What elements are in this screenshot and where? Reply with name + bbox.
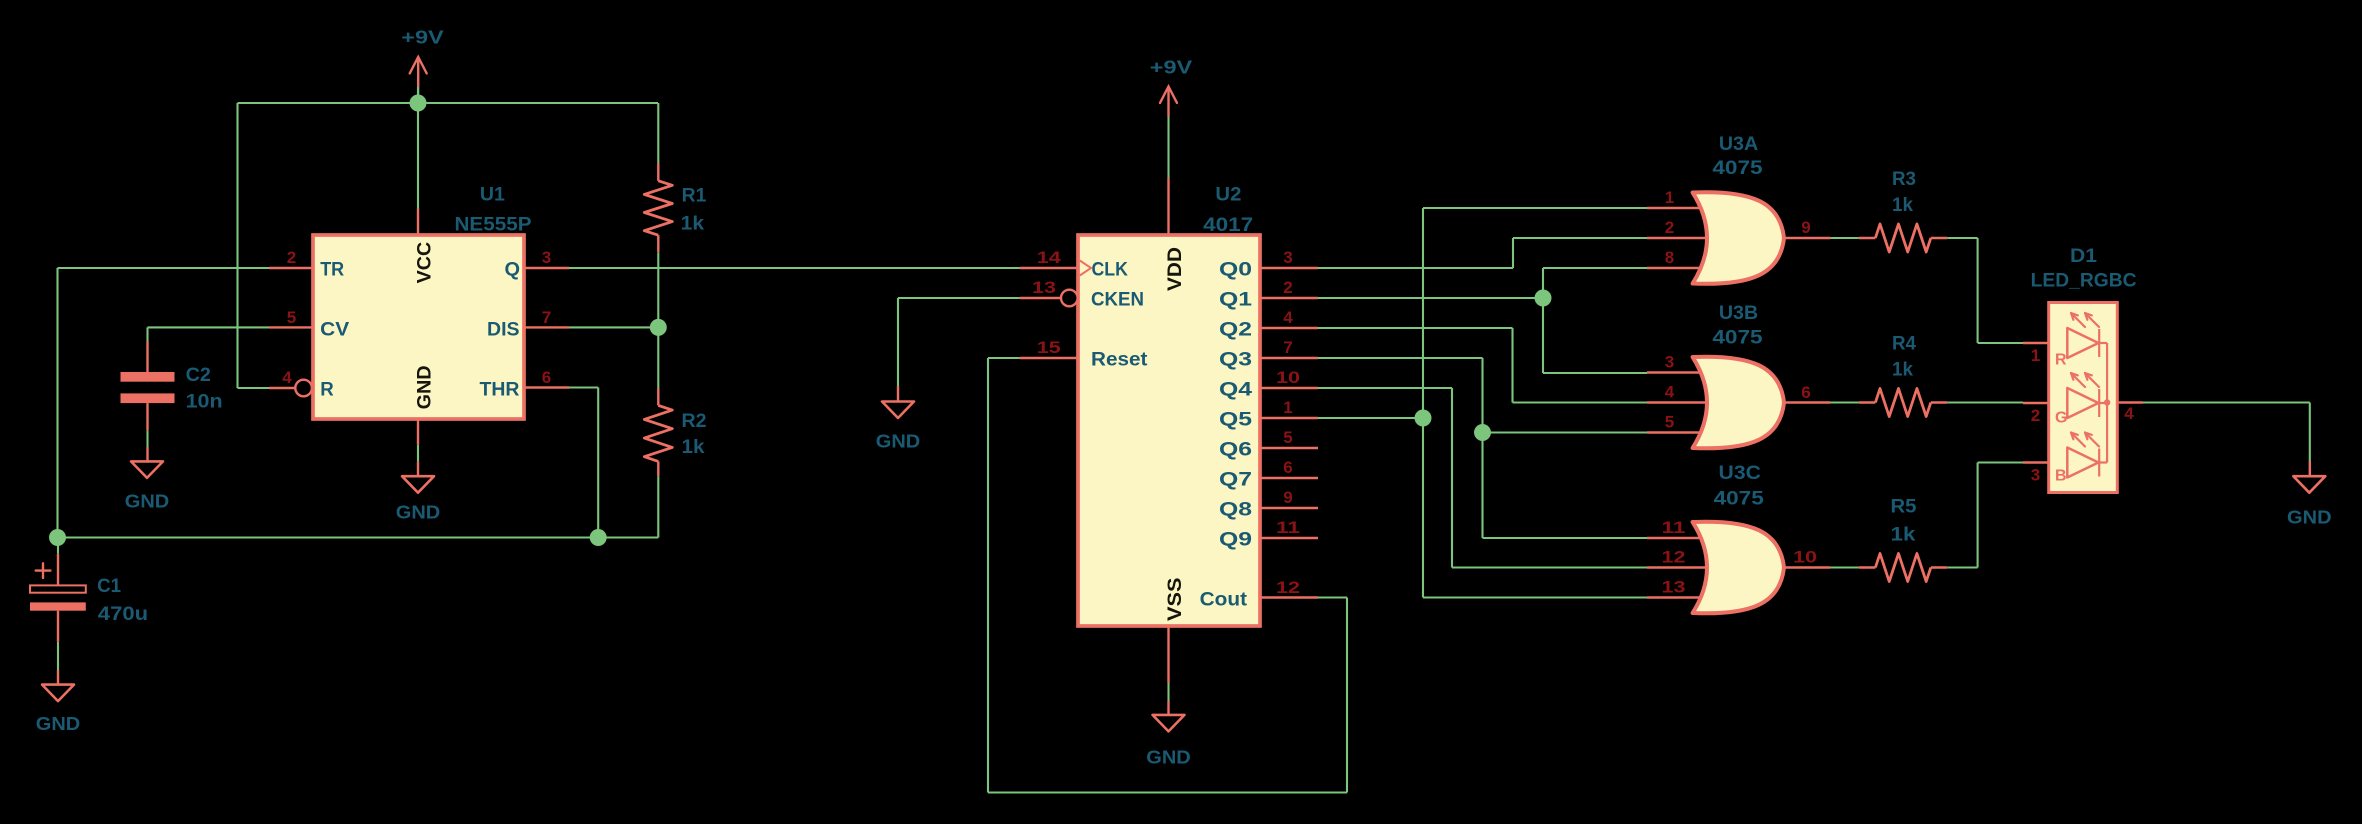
svg-text:4: 4 <box>1665 383 1675 402</box>
svg-text:2: 2 <box>1665 218 1674 237</box>
svg-text:Q4: Q4 <box>1219 380 1253 401</box>
svg-text:C2: C2 <box>186 365 211 386</box>
svg-text:Q8: Q8 <box>1219 500 1252 521</box>
svg-text:VCC: VCC <box>414 242 435 284</box>
svg-text:U2: U2 <box>1215 185 1241 206</box>
svg-text:GND: GND <box>2287 507 2332 528</box>
svg-text:7: 7 <box>542 308 551 327</box>
svg-text:VSS: VSS <box>1165 578 1186 622</box>
svg-text:R: R <box>320 380 334 401</box>
svg-text:3: 3 <box>1665 353 1674 372</box>
svg-text:R: R <box>2055 352 2067 369</box>
svg-text:3: 3 <box>542 248 551 267</box>
svg-text:NE555P: NE555P <box>455 215 532 236</box>
svg-text:1: 1 <box>2031 346 2040 365</box>
svg-text:9: 9 <box>1283 488 1292 507</box>
svg-text:Q3: Q3 <box>1219 350 1252 371</box>
svg-text:13: 13 <box>1662 578 1686 597</box>
svg-text:1k: 1k <box>682 437 705 458</box>
svg-text:6: 6 <box>1283 458 1292 477</box>
svg-text:CKEN: CKEN <box>1091 290 1144 311</box>
svg-text:Q: Q <box>505 260 521 281</box>
svg-text:1k: 1k <box>1892 195 1913 216</box>
svg-text:2: 2 <box>287 248 296 267</box>
svg-text:470u: 470u <box>98 604 148 625</box>
svg-text:6: 6 <box>542 368 551 387</box>
svg-text:15: 15 <box>1037 338 1061 357</box>
svg-text:G: G <box>2055 410 2067 427</box>
svg-text:R5: R5 <box>1891 497 1917 518</box>
svg-text:Q0: Q0 <box>1219 260 1252 281</box>
svg-text:+9V: +9V <box>1150 57 1193 78</box>
svg-text:GND: GND <box>36 713 81 734</box>
svg-text:1k: 1k <box>1892 360 1913 381</box>
svg-text:GND: GND <box>125 491 170 512</box>
svg-text:LED_RGBC: LED_RGBC <box>2031 271 2137 292</box>
svg-text:4017: 4017 <box>1203 215 1253 236</box>
svg-text:1: 1 <box>1665 188 1674 207</box>
svg-text:CV: CV <box>320 320 349 341</box>
svg-text:Cout: Cout <box>1200 590 1248 611</box>
svg-text:Q5: Q5 <box>1219 410 1253 431</box>
svg-text:B: B <box>2055 468 2067 485</box>
svg-text:4075: 4075 <box>1714 489 1765 510</box>
svg-text:1: 1 <box>1283 398 1292 417</box>
svg-text:5: 5 <box>1665 413 1674 432</box>
svg-text:5: 5 <box>287 308 296 327</box>
svg-text:U3A: U3A <box>1719 134 1759 155</box>
svg-text:12: 12 <box>1276 578 1300 597</box>
svg-text:4: 4 <box>1283 308 1293 327</box>
svg-text:10: 10 <box>1276 368 1300 387</box>
svg-text:10: 10 <box>1793 548 1817 567</box>
svg-text:Q2: Q2 <box>1219 320 1252 341</box>
svg-text:R2: R2 <box>682 411 707 432</box>
svg-text:Q9: Q9 <box>1219 530 1252 551</box>
svg-text:VDD: VDD <box>1165 247 1186 291</box>
svg-text:DIS: DIS <box>487 320 520 341</box>
svg-text:14: 14 <box>1037 248 1062 267</box>
svg-text:4075: 4075 <box>1712 158 1763 179</box>
svg-text:1k: 1k <box>1891 525 1916 546</box>
svg-text:Q6: Q6 <box>1219 440 1252 461</box>
svg-text:GND: GND <box>414 365 435 409</box>
svg-text:THR: THR <box>480 380 520 401</box>
svg-text:Q1: Q1 <box>1219 290 1253 311</box>
svg-text:8: 8 <box>1665 248 1674 267</box>
svg-text:U3B: U3B <box>1719 303 1758 324</box>
svg-text:U1: U1 <box>480 185 505 206</box>
svg-text:11: 11 <box>1276 518 1300 537</box>
svg-text:D1: D1 <box>2070 246 2097 267</box>
svg-text:GND: GND <box>396 502 441 523</box>
svg-text:GND: GND <box>876 431 921 452</box>
svg-text:+9V: +9V <box>401 27 444 48</box>
svg-text:C1: C1 <box>97 576 121 597</box>
svg-text:4075: 4075 <box>1712 328 1763 349</box>
svg-text:10n: 10n <box>186 392 223 413</box>
svg-text:12: 12 <box>1662 548 1686 567</box>
svg-text:2: 2 <box>2031 406 2040 425</box>
svg-text:3: 3 <box>1283 248 1292 267</box>
svg-text:GND: GND <box>1146 747 1191 768</box>
svg-text:13: 13 <box>1032 278 1056 297</box>
svg-text:1k: 1k <box>681 214 705 235</box>
svg-text:6: 6 <box>1801 383 1810 402</box>
svg-text:U3C: U3C <box>1719 463 1762 484</box>
svg-text:11: 11 <box>1662 518 1686 537</box>
svg-text:R1: R1 <box>682 186 707 207</box>
svg-text:7: 7 <box>1283 338 1292 357</box>
svg-text:Reset: Reset <box>1091 350 1148 371</box>
svg-text:R3: R3 <box>1892 169 1916 190</box>
svg-text:2: 2 <box>1283 278 1292 297</box>
svg-text:3: 3 <box>2031 466 2040 485</box>
svg-text:5: 5 <box>1283 428 1292 447</box>
svg-text:Q7: Q7 <box>1219 470 1252 491</box>
svg-text:4: 4 <box>282 368 292 387</box>
svg-text:9: 9 <box>1801 218 1810 237</box>
svg-text:R4: R4 <box>1892 334 1916 355</box>
svg-text:4: 4 <box>2124 404 2134 423</box>
svg-text:CLK: CLK <box>1092 260 1129 281</box>
svg-text:TR: TR <box>320 260 344 281</box>
